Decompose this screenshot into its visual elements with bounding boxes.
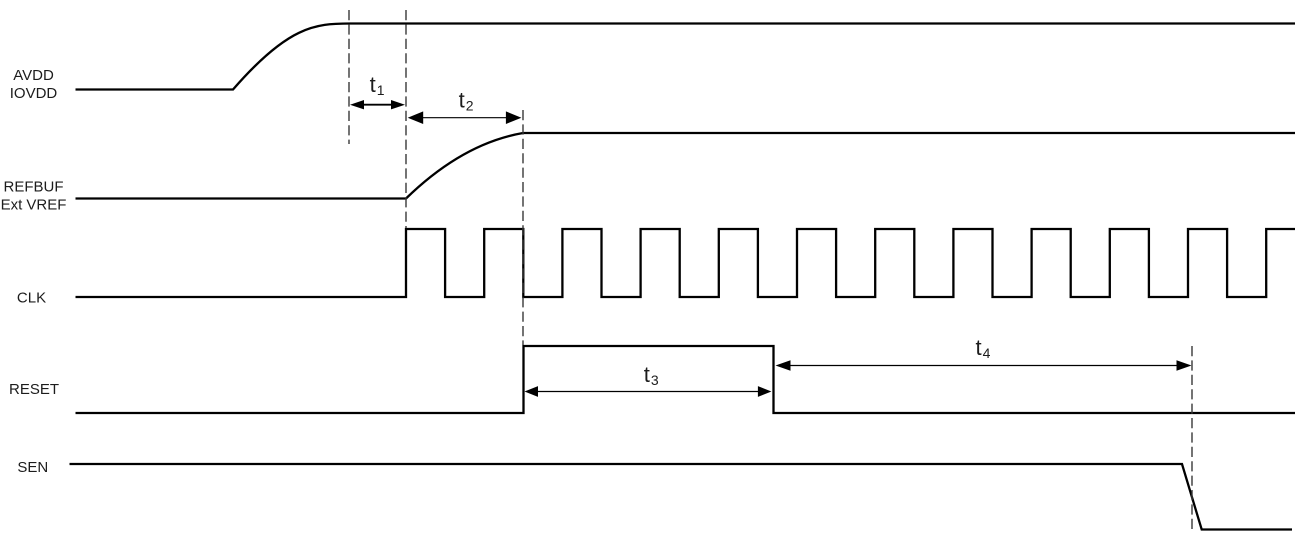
dimension arrow t2 [408,111,522,124]
dimension arrow t3 [525,386,772,397]
wire CLK waveform [76,229,1296,297]
svg-text:t1: t1 [370,72,385,98]
wire REFBUF/Ext VREF waveform [76,133,1296,199]
wire AVDD/IOVDD waveform [76,24,1296,90]
svg-text:SEN: SEN [17,459,48,476]
dashed marker line 1 (end of AVDD ramp, x=349) [348,10,350,144]
node REFBUF/Ext VREF label [1,178,67,213]
svg-text:Ext VREF: Ext VREF [1,196,67,213]
node AVDD/IOVDD label [10,67,58,102]
svg-text:t4: t4 [976,335,991,361]
svg-text:t2: t2 [459,88,474,114]
wire RESET waveform [76,346,1296,413]
dimension arrow t1 [350,100,405,109]
svg-text:IOVDD: IOVDD [10,85,58,102]
svg-text:REFBUF: REFBUF [4,178,64,195]
dashed marker line 3 (end of REFBUF ramp / RESET rise, x=523) [522,110,524,345]
svg-text:t3: t3 [644,362,659,388]
dimension arrow t4 [776,360,1192,371]
svg-text:AVDD: AVDD [13,67,54,84]
dashed marker line 4 (SEN fall, x=1192) [1191,346,1193,529]
svg-text:RESET: RESET [9,381,59,398]
wire SEN waveform [70,464,1293,530]
dashed marker line 2 (start of REFBUF ramp / CLK start, x=406) [405,10,407,228]
svg-text:CLK: CLK [17,289,46,306]
